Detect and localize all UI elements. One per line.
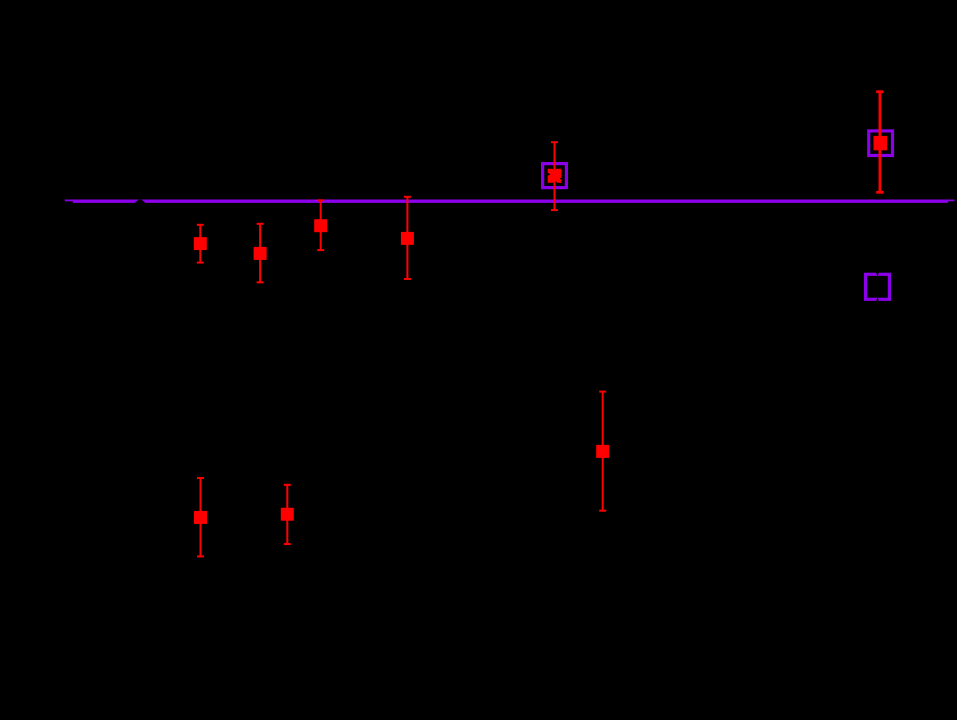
- error bar P2: [257, 223, 264, 283]
- black notch left of P5: [548, 173, 551, 176]
- marker P1 (red filled square): [194, 237, 207, 250]
- marker P6: [596, 445, 609, 458]
- purple open square around point P5: [543, 164, 567, 188]
- black notch right of P5: [560, 177, 562, 180]
- error bar P8: [197, 477, 204, 557]
- marker P9: [281, 508, 294, 521]
- error bar P4: [404, 196, 411, 280]
- error bar P9: [284, 484, 291, 545]
- marker P7: [874, 136, 888, 150]
- marker P2: [254, 247, 267, 260]
- fit line (purple horizontal): [65, 200, 955, 203]
- black cover right end bottom half: [948, 201, 955, 203]
- marker P3: [314, 219, 327, 232]
- black notch top-center of legend square: [876, 272, 879, 277]
- black notch bottom-center of legend square: [876, 296, 879, 301]
- purple open square around point P7: [869, 131, 893, 156]
- error bar P7: [876, 91, 883, 193]
- error bar P3: [317, 200, 324, 251]
- black notch top of P5: [553, 169, 557, 172]
- black cover left end bottom half: [65, 201, 73, 203]
- red line re-over P5 center: [554, 168, 556, 185]
- marker P8: [194, 511, 207, 524]
- error bar P6: [599, 391, 606, 512]
- error bar P5: [551, 141, 558, 211]
- marker P4: [401, 232, 414, 245]
- error bar P1: [197, 224, 204, 263]
- legend purple open square: [866, 274, 890, 299]
- black marker notch on line at x=140: [133, 199, 148, 205]
- black notch bottom of P5: [553, 180, 558, 183]
- marker P5 (red square with black X-notches): [548, 169, 562, 183]
